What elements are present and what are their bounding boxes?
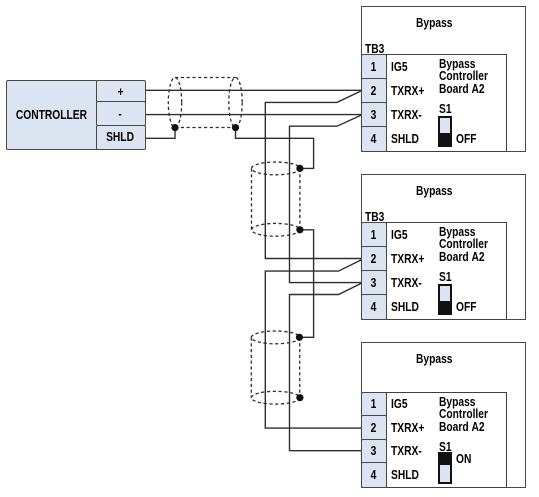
- shielded cable W2 (bypass 1 to bypass 2): [252, 162, 300, 236]
- terminal 4 of TB3 unit 2: [361, 294, 387, 320]
- terminal 2 of TB3 unit 1: [361, 78, 387, 104]
- wire bypass1 TXRX- to bypass2 TXRX-: [290, 115, 363, 283]
- junction shield W1 left: [171, 124, 178, 131]
- pin label SHLD (unit 1): [391, 127, 425, 151]
- terminal 3 of TB3 unit 2: [361, 270, 387, 296]
- wire controller + to bypass1 TXRX+: [145, 89, 363, 91]
- wire cable W1 shield to cable W2 shield: [236, 128, 314, 169]
- pin label IG5 (unit 3): [391, 393, 411, 417]
- label Bypass (unit 2 title): [362, 185, 506, 197]
- pin label TXRX+ (unit 3): [391, 416, 432, 440]
- label TB3 (unit 1 terminal block): [365, 43, 389, 55]
- wire bypass1 TXRX+ to bypass2 TXRX+: [265, 91, 362, 259]
- bypass controller board A2 inner box (unit 2): [386, 222, 507, 320]
- label S1 (unit 2): [439, 271, 454, 283]
- terminal 3 of TB3 unit 1: [361, 102, 387, 128]
- terminal 1 of TB3 unit 2: [361, 222, 387, 248]
- label Bypass Controller Board A2 (unit 2): [439, 226, 499, 263]
- wire controller SHLD to cable W1 shield: [145, 128, 176, 139]
- terminal 1 of TB3 unit 3: [361, 392, 387, 418]
- wire controller - to bypass1 TXRX-: [145, 114, 363, 116]
- wire bypass2 TXRX+ to bypass3 TXRX+: [265, 260, 362, 429]
- switch S1 black toggle ON position (unit 3): [440, 454, 451, 466]
- label Bypass (unit 1 title): [362, 17, 506, 29]
- switch S1 body (unit 1): [438, 116, 453, 147]
- label S1 (unit 1): [439, 103, 454, 115]
- label TB3 (unit 2 terminal block): [365, 211, 389, 223]
- controller block: [6, 80, 98, 150]
- terminal 1 of TB3 unit 1: [361, 54, 387, 80]
- junction shield W3 bottom: [296, 394, 303, 401]
- terminal SHLD of controller: [96, 125, 146, 150]
- pin label TXRX- (unit 1): [391, 103, 429, 127]
- pin label TXRX+ (unit 1): [391, 79, 432, 103]
- switch S1 body (unit 2): [438, 284, 453, 315]
- pin label TXRX+ (unit 2): [391, 247, 432, 271]
- junction shield W3 top: [296, 334, 303, 341]
- pin label TXRX- (unit 2): [391, 271, 429, 295]
- label S1 (unit 3): [439, 441, 454, 453]
- junction shield W2 top: [296, 165, 303, 172]
- wire cable W2 shield to cable W3 shield: [299, 230, 313, 337]
- switch S1 body (unit 3): [438, 452, 453, 484]
- shielded cable W3 (bypass 2 to bypass 3): [251, 331, 299, 404]
- terminal 2 of TB3 unit 2: [361, 246, 387, 272]
- terminal 4 of TB3 unit 3: [361, 462, 387, 488]
- terminal - of controller: [96, 101, 146, 126]
- terminal 2 of TB3 unit 3: [361, 415, 387, 441]
- junction shield W1 right: [232, 124, 239, 131]
- bypass unit 1 outer box: [361, 6, 526, 152]
- shielded cable W1 (controller to bypass 1): [168, 78, 242, 128]
- label OFF (unit 2): [456, 301, 481, 313]
- label Bypass (unit 3 title): [362, 353, 506, 365]
- label ON (unit 3): [456, 453, 475, 465]
- pin label IG5 (unit 2): [391, 223, 411, 247]
- label Bypass Controller Board A2 (unit 3): [439, 396, 499, 433]
- switch S1 black toggle OFF position (unit 1): [440, 133, 451, 145]
- terminal 3 of TB3 unit 3: [361, 439, 387, 465]
- label Bypass Controller Board A2 (unit 1): [439, 58, 499, 95]
- switch S1 black toggle OFF position (unit 2): [440, 301, 451, 313]
- bypass controller board A2 inner box (unit 1): [386, 54, 507, 152]
- bypass unit 3 outer box: [361, 342, 526, 488]
- junction shield W2 bottom: [296, 226, 303, 233]
- pin label SHLD (unit 2): [391, 295, 425, 319]
- pin label IG5 (unit 1): [391, 55, 411, 79]
- pin label TXRX- (unit 3): [391, 440, 429, 464]
- wire bypass2 TXRX- to bypass3 TXRX-: [290, 283, 363, 451]
- pin label SHLD (unit 3): [391, 463, 425, 487]
- label OFF (unit 1): [456, 133, 481, 145]
- bypass controller board A2 inner box (unit 3): [386, 392, 507, 488]
- terminal 4 of TB3 unit 1: [361, 126, 387, 152]
- bypass unit 2 outer box: [361, 174, 526, 320]
- terminal + of controller: [96, 80, 146, 103]
